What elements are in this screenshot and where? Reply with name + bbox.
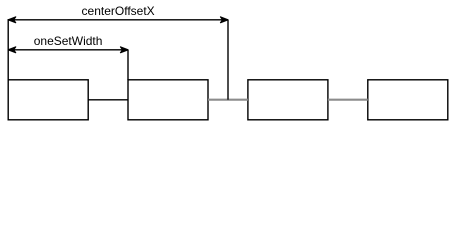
arrowhead right (oneSetWidth) — [121, 47, 129, 53]
dimension line centerOffsetX — [8, 19, 228, 21]
wire: gray connector B2-B3 — [208, 99, 248, 101]
arrowhead left (oneSetWidth) — [8, 47, 16, 53]
svg-text:oneSetWidth: oneSetWidth — [34, 34, 103, 48]
dimension line oneSetWidth — [8, 49, 128, 51]
wire: black connector B1-B2 — [88, 99, 128, 101]
arrowhead left (centerOffsetX) — [8, 17, 16, 23]
box B1 — [8, 80, 88, 120]
wire: left extension line — [7, 19, 9, 80]
box B3 — [248, 80, 328, 120]
wire: right extension line (centerOffsetX) — [227, 20, 229, 100]
box B2 — [128, 80, 208, 120]
svg-text:centerOffsetX: centerOffsetX — [82, 4, 155, 18]
wire: right extension line (oneSetWidth) — [127, 50, 129, 80]
box B4 — [368, 80, 448, 120]
arrowhead right (centerOffsetX) — [221, 17, 229, 23]
wire: gray connector B3-B4 — [328, 99, 368, 101]
